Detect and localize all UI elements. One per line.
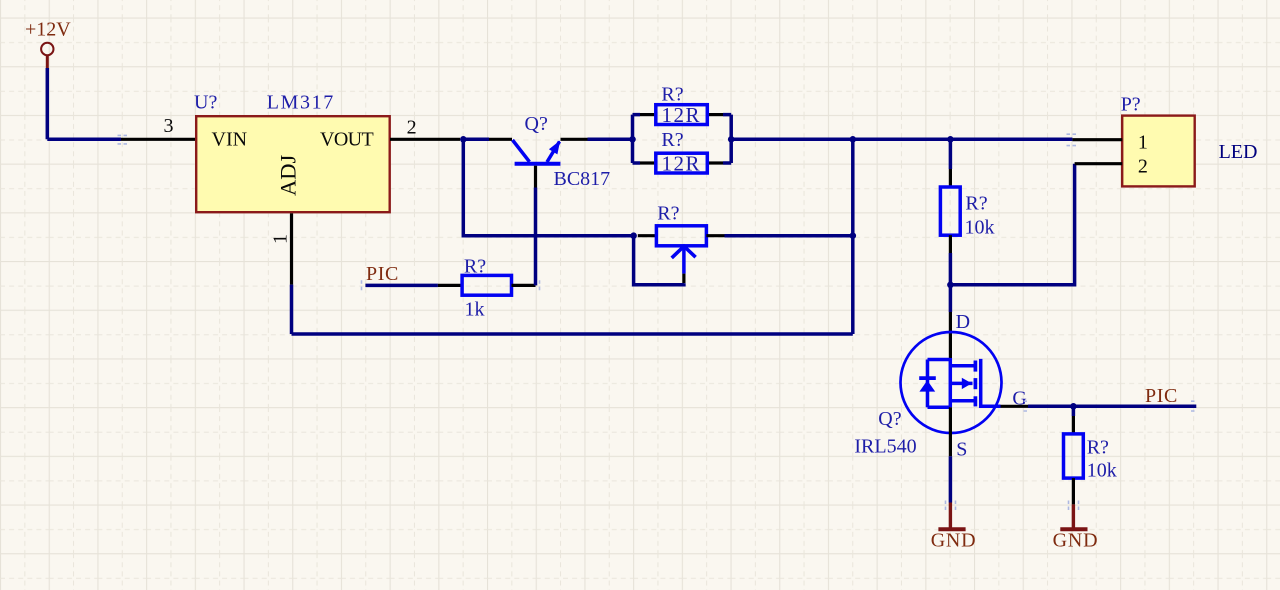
connector P1 body: [1122, 116, 1195, 187]
collector slanted lead: [513, 140, 530, 162]
source pin: [949, 407, 952, 456]
svg-text:+12V: +12V: [25, 18, 71, 40]
wire junction to connector pin 2: [950, 164, 1074, 285]
channel segment middle: [974, 378, 978, 389]
svg-text:R?: R?: [657, 202, 679, 224]
pin 1 (ADJ): [290, 213, 293, 284]
junction node at VOUT: [460, 136, 467, 143]
wire drain feed down to Q2: [949, 285, 953, 312]
junction at x=852.8: [850, 136, 857, 143]
ground GND (right): [1053, 504, 1099, 551]
wire +12V to VIN: [47, 68, 121, 139]
pin 2 of P1: [1075, 162, 1123, 165]
substrate stub: [950, 382, 972, 386]
svg-text:R?: R?: [661, 129, 683, 151]
junction pot left node: [630, 232, 637, 239]
svg-text:1k: 1k: [465, 298, 485, 320]
svg-text:VOUT: VOUT: [320, 129, 374, 151]
resistor R4 1k: [438, 255, 536, 320]
svg-text:VIN: VIN: [212, 129, 248, 151]
svg-text:D: D: [956, 311, 970, 333]
svg-text:10k: 10k: [965, 216, 995, 238]
wire right rail of 12R pair: [723, 115, 731, 163]
gate pin: [1001, 405, 1029, 408]
internal left vertical: [949, 358, 953, 407]
emitter pin: [561, 138, 588, 141]
ground GND (left): [931, 503, 977, 552]
pin 2 (VOUT): [390, 138, 460, 141]
wire VOUT to Q1 collector: [463, 138, 489, 142]
body circle: [901, 332, 1002, 433]
junction below R5: [947, 282, 954, 289]
wire emitter to 12R pair: [588, 138, 633, 142]
svg-text:R?: R?: [464, 255, 486, 277]
wire source to ground: [949, 456, 953, 502]
svg-text:1: 1: [270, 234, 292, 244]
wiper pin: [682, 274, 685, 284]
potentiometer R3: [630, 202, 724, 283]
svg-text:R?: R?: [965, 193, 987, 215]
wire bottom feedback run to ADJ: [292, 285, 853, 334]
junction at x=950.4: [947, 136, 954, 143]
body: [656, 226, 706, 246]
left terminal: [638, 234, 657, 237]
pin 3 (VIN): [121, 138, 196, 141]
channel segment bottom: [974, 396, 978, 406]
wire gate to PIC: [1028, 405, 1196, 409]
source stub: [950, 399, 975, 403]
svg-text:12R: 12R: [662, 103, 702, 127]
emitter slanted lead: [547, 142, 560, 163]
wire base of Q1 down to R4: [534, 188, 538, 286]
channel segment top: [974, 361, 978, 372]
svg-text:GND: GND: [1053, 530, 1099, 552]
wire vertical feedback rail: [851, 139, 855, 334]
diode bottom connect: [928, 406, 951, 410]
svg-text:10k: 10k: [1087, 459, 1117, 481]
svg-text:S: S: [956, 439, 967, 461]
drain stub: [950, 364, 975, 368]
base bar: [515, 162, 561, 166]
drain connect segment: [928, 358, 951, 362]
transistor Q2 IRL540 MOSFET: [854, 332, 1001, 458]
resistor R5 10k (top): [940, 139, 994, 284]
svg-text:LM317: LM317: [267, 92, 335, 114]
junction left rail: [629, 136, 636, 143]
wire main rail to connector: [731, 138, 1072, 142]
junction gate / R6: [1070, 403, 1077, 410]
svg-text:P?: P?: [1121, 94, 1141, 116]
svg-text:2: 2: [407, 117, 417, 139]
wire VOUT junction down to pot row: [463, 139, 633, 235]
wire endpoint marks: [118, 134, 1195, 510]
emitter arrowhead: [549, 140, 560, 154]
right terminal: [706, 234, 724, 237]
svg-text:R?: R?: [1087, 437, 1109, 459]
regulator U? LM317 body: [196, 116, 390, 212]
wiper arrow: [672, 246, 696, 258]
pin 1 of P1: [1072, 138, 1122, 141]
junction feedback rail / pot wire: [850, 232, 857, 239]
substrate arrowhead: [962, 378, 972, 389]
base pin: [534, 166, 537, 188]
drain pin of Q2: [949, 312, 952, 359]
svg-text:U?: U?: [194, 92, 217, 114]
svg-text:ADJ: ADJ: [276, 155, 301, 196]
svg-text:1: 1: [1138, 132, 1148, 154]
svg-text:LED: LED: [1219, 141, 1258, 163]
junction right rail: [728, 136, 735, 143]
svg-text:GND: GND: [931, 530, 977, 552]
body diode cathode bar: [919, 376, 936, 380]
svg-text:Q?: Q?: [525, 113, 548, 135]
wire pot right to feedback rail: [725, 234, 853, 238]
resistor R6 10k (gate pulldown): [1064, 406, 1117, 504]
collector pin: [489, 138, 512, 141]
wire left rail of 12R pair: [633, 115, 641, 163]
svg-text:12R: 12R: [662, 151, 702, 175]
power port +12V: [25, 18, 71, 68]
svg-text:PIC: PIC: [1145, 385, 1178, 407]
svg-text:3: 3: [164, 115, 174, 137]
resistor R2 12R (bottom): [640, 129, 723, 176]
body diode leg: [926, 360, 930, 408]
gate bar and gate lead: [981, 359, 1001, 406]
svg-text:IRL540: IRL540: [854, 436, 916, 458]
svg-text:BC817: BC817: [554, 168, 611, 190]
wire pot wiper loop: [634, 236, 684, 285]
svg-text:Q?: Q?: [878, 408, 901, 430]
transistor Q1 BC817: [489, 113, 610, 190]
wiper stem: [682, 246, 686, 273]
wire PIC to R4: [365, 284, 438, 288]
body diode triangle: [919, 380, 935, 391]
svg-text:2: 2: [1138, 156, 1148, 178]
resistor R1 12R (top): [640, 84, 723, 128]
svg-text:PIC: PIC: [366, 263, 399, 285]
